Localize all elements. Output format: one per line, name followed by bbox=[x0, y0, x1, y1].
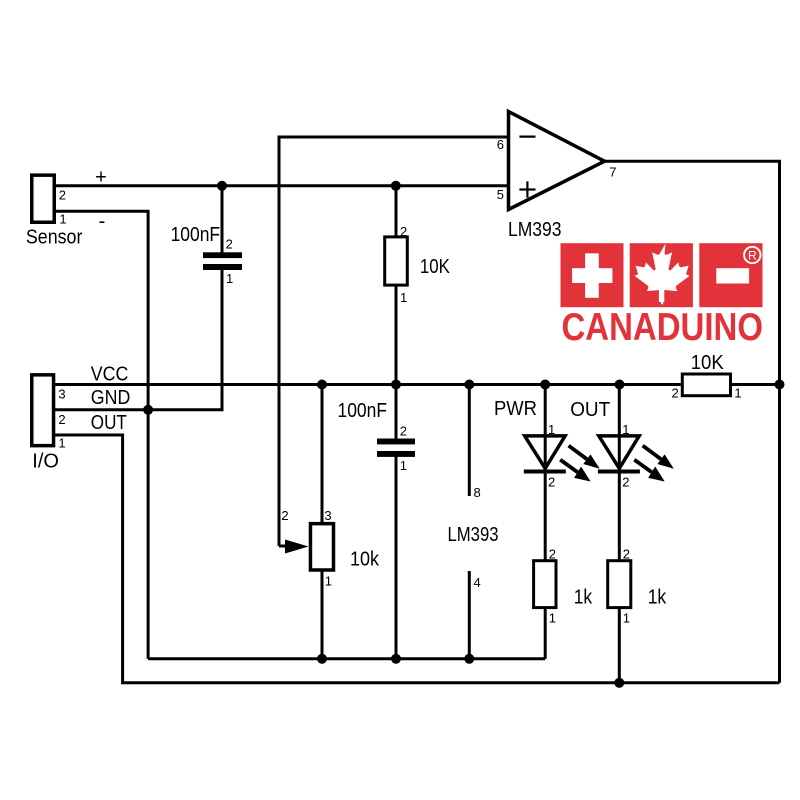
LED PWR bbox=[524, 436, 600, 482]
svg-text:3: 3 bbox=[324, 508, 331, 523]
wire ground bus bbox=[148, 657, 545, 660]
svg-text:I/O: I/O bbox=[32, 451, 59, 473]
svg-text:1: 1 bbox=[622, 422, 629, 437]
svg-text:8: 8 bbox=[474, 485, 481, 500]
svg-text:CANADUINO: CANADUINO bbox=[562, 306, 764, 349]
svg-text:Sensor: Sensor bbox=[26, 227, 83, 249]
svg-text:2: 2 bbox=[400, 224, 407, 239]
svg-text:1: 1 bbox=[549, 611, 556, 626]
connector J1 Sensor bbox=[32, 175, 55, 222]
svg-text:1: 1 bbox=[59, 212, 66, 227]
svg-text:2: 2 bbox=[281, 508, 288, 523]
svg-text:1: 1 bbox=[325, 574, 332, 589]
wire wiper stub bbox=[279, 545, 293, 548]
wire PWR LED column bbox=[544, 385, 547, 659]
wire OUT (I/O pin1 down and along bottom to output node) bbox=[55, 435, 780, 683]
junction bottom out bus / OUT LED resistor bbox=[614, 678, 624, 688]
resistor 10K (output pull-up) bbox=[682, 374, 730, 396]
op-amp U1 LM393 bbox=[509, 112, 605, 210]
svg-text:100nF: 100nF bbox=[171, 224, 221, 246]
junction output node / 10K bbox=[775, 380, 785, 390]
svg-text:VCC: VCC bbox=[91, 364, 129, 386]
svg-text:10k: 10k bbox=[350, 549, 380, 571]
svg-text:2: 2 bbox=[58, 412, 65, 427]
junction VCC / PWR LED bbox=[540, 380, 550, 390]
svg-text:-: - bbox=[99, 211, 106, 233]
svg-text:4: 4 bbox=[474, 575, 481, 590]
svg-text:1k: 1k bbox=[648, 587, 667, 609]
potentiometer wiper arrow bbox=[285, 540, 309, 554]
svg-text:10K: 10K bbox=[691, 352, 725, 374]
junction GND wire / sensor minus bbox=[143, 405, 153, 415]
wire LM393 pin 4 stub bbox=[468, 571, 471, 659]
svg-text:7: 7 bbox=[609, 165, 616, 180]
svg-text:1: 1 bbox=[548, 422, 555, 437]
svg-text:LM393: LM393 bbox=[448, 524, 499, 546]
junction + wire / C1 bbox=[217, 181, 227, 191]
svg-text:1k: 1k bbox=[574, 587, 593, 609]
svg-text:2: 2 bbox=[400, 424, 407, 439]
svg-text:1: 1 bbox=[623, 611, 630, 626]
junction ground bus / pin4 stub bbox=[464, 654, 474, 664]
svg-text:100nF: 100nF bbox=[338, 400, 388, 422]
junction VCC / OUT LED bbox=[615, 380, 625, 390]
svg-text:1: 1 bbox=[400, 290, 407, 305]
wire + (sensor pin2 to op-amp pin5) bbox=[55, 184, 509, 187]
svg-text:2: 2 bbox=[549, 547, 556, 562]
svg-text:3: 3 bbox=[58, 387, 65, 402]
svg-text:OUT: OUT bbox=[570, 399, 610, 421]
svg-text:PWR: PWR bbox=[494, 398, 537, 420]
svg-text:1: 1 bbox=[734, 385, 741, 400]
svg-text:5: 5 bbox=[497, 187, 504, 202]
svg-text:1: 1 bbox=[226, 271, 233, 286]
junction VCC / pot bbox=[317, 380, 327, 390]
junction VCC / C2 bbox=[391, 380, 401, 390]
junction ground bus / pot bbox=[317, 654, 327, 664]
svg-text:2: 2 bbox=[548, 474, 555, 489]
LED OUT bbox=[598, 436, 674, 482]
svg-text:1: 1 bbox=[58, 435, 65, 450]
svg-text:2: 2 bbox=[59, 187, 66, 202]
resistor 10K (sensor pull-up) bbox=[385, 237, 408, 285]
wire GND (I/O pin2 to C1 bottom) bbox=[55, 186, 223, 410]
wire 10K / C2 column bbox=[395, 186, 398, 659]
svg-text:R: R bbox=[748, 248, 757, 262]
svg-text:10K: 10K bbox=[420, 256, 451, 278]
wire VCC rail bbox=[55, 383, 681, 386]
wire potentiometer column bbox=[321, 385, 324, 659]
connector J2 I/O bbox=[32, 375, 54, 446]
capacitor C2 100nF bbox=[375, 439, 418, 457]
svg-text:+: + bbox=[95, 166, 107, 188]
wire OUT LED column bbox=[618, 385, 621, 683]
resistor 1k (PWR LED) bbox=[534, 561, 556, 608]
svg-text:2: 2 bbox=[623, 547, 630, 562]
junction VCC / pin8 stub bbox=[464, 380, 474, 390]
wire feedback (pot wiper up to op-amp pin6) bbox=[279, 137, 509, 546]
CANADUINO logo bbox=[561, 243, 764, 349]
svg-text:2: 2 bbox=[622, 474, 629, 489]
svg-text:2: 2 bbox=[672, 385, 679, 400]
svg-text:LM393: LM393 bbox=[508, 219, 562, 241]
wire 10K pullup right lead bbox=[732, 383, 780, 386]
wire output (op-amp pin7 right and down) bbox=[604, 161, 780, 683]
svg-text:OUT: OUT bbox=[91, 412, 127, 434]
capacitor C1 100nF bbox=[201, 252, 244, 270]
junction ground bus / C2 bbox=[391, 654, 401, 664]
wire LM393 pin 8 stub bbox=[468, 385, 471, 497]
svg-text:2: 2 bbox=[226, 237, 233, 252]
wire - (sensor pin1 down to ground bus) bbox=[55, 211, 149, 659]
svg-text:GND: GND bbox=[91, 387, 131, 409]
svg-text:1: 1 bbox=[400, 458, 407, 473]
resistor 1k (OUT LED) bbox=[608, 561, 631, 608]
svg-text:6: 6 bbox=[497, 137, 504, 152]
junction + wire / 10K bbox=[391, 181, 401, 191]
potentiometer 10k body bbox=[310, 524, 333, 570]
